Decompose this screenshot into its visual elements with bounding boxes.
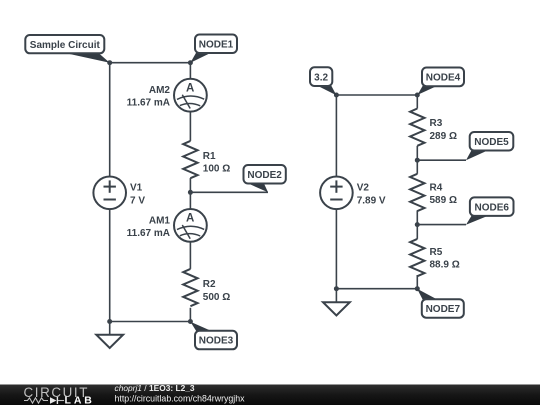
svg-text:3.2: 3.2	[314, 72, 328, 83]
svg-text:http://circuitlab.com/ch84rwry: http://circuitlab.com/ch84rwrygjhx	[115, 393, 246, 403]
svg-text:NODE7: NODE7	[426, 304, 461, 315]
svg-text:11.67 mA: 11.67 mA	[127, 98, 170, 109]
svg-text:589 Ω: 589 Ω	[430, 195, 457, 206]
svg-text:NODE3: NODE3	[199, 336, 234, 347]
svg-text:AM2: AM2	[149, 85, 171, 96]
svg-text:88.9 Ω: 88.9 Ω	[430, 260, 460, 271]
svg-text:7.89 V: 7.89 V	[357, 195, 386, 206]
svg-text:A: A	[186, 83, 194, 95]
svg-text:289 Ω: 289 Ω	[430, 131, 457, 142]
svg-text:NODE5: NODE5	[474, 137, 509, 148]
svg-text:11.67 mA: 11.67 mA	[127, 228, 170, 239]
svg-text:NODE6: NODE6	[474, 202, 509, 213]
svg-text:NODE4: NODE4	[426, 73, 461, 84]
svg-text:R2: R2	[203, 279, 216, 290]
svg-text:NODE2: NODE2	[247, 170, 282, 181]
svg-text:R3: R3	[430, 118, 443, 129]
svg-text:LAB: LAB	[65, 395, 95, 405]
svg-text:500 Ω: 500 Ω	[203, 292, 230, 303]
svg-text:V1: V1	[130, 183, 143, 194]
svg-text:AM1: AM1	[149, 215, 171, 226]
svg-text:7 V: 7 V	[130, 195, 145, 206]
svg-text:R1: R1	[203, 151, 216, 162]
svg-text:NODE1: NODE1	[199, 39, 234, 50]
svg-text:R4: R4	[430, 182, 443, 193]
svg-text:V2: V2	[357, 183, 370, 194]
svg-text:Sample Circuit: Sample Circuit	[30, 40, 101, 51]
svg-text:R5: R5	[430, 247, 443, 258]
svg-text:100 Ω: 100 Ω	[203, 163, 230, 174]
svg-text:A: A	[186, 213, 194, 225]
svg-text:choprj1 / 1EO3: L2_3: choprj1 / 1EO3: L2_3	[115, 383, 195, 393]
